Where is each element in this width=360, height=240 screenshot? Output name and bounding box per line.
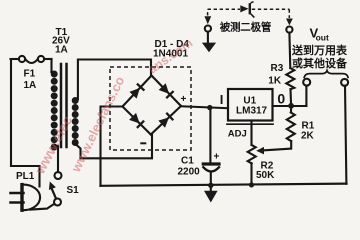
output wire U1 to node — [273, 105, 307, 107]
bridge diode D3 lower-left — [129, 113, 145, 129]
capacitor C1 lead — [209, 108, 211, 163]
R3 bottom lead — [289, 89, 292, 106]
R2 wiper arrow — [256, 147, 264, 155]
wire secondary top to bridge — [78, 60, 151, 100]
svg-text:被测二极管: 被测二极管 — [220, 20, 272, 33]
ground symbol test terminal — [202, 43, 216, 53]
arrow to left test terminal — [204, 16, 211, 24]
dashed test diode right vertical — [288, 9, 290, 18]
svg-text:LM317: LM317 — [236, 106, 268, 117]
switch lever arrowhead — [49, 182, 56, 191]
brace above terminals — [304, 71, 348, 78]
bridge dashed box — [110, 67, 191, 150]
svg-text:PL1: PL1 — [16, 171, 35, 182]
test diode symbol — [240, 5, 248, 12]
wire switch to primary bottom — [57, 146, 59, 172]
bridge diode D2 upper-right — [159, 83, 175, 99]
transformer T1 secondary winding — [72, 97, 79, 146]
bridge diode D4 lower-right — [158, 112, 174, 128]
wire left terminal to ground — [207, 32, 209, 43]
Vout right terminal — [341, 79, 348, 86]
test diode terminal circles — [205, 26, 211, 32]
plug prong lower — [11, 201, 24, 204]
plug prong upper — [11, 192, 24, 195]
watermark red — [31, 36, 195, 177]
wire mains left vertical — [10, 59, 12, 166]
node dot C1/ground rail — [208, 183, 213, 188]
wire secondary bottom — [76, 145, 81, 159]
wire bridge left corner to DC minus vertical — [101, 107, 123, 186]
svg-text:R3: R3 — [271, 63, 284, 74]
svg-text:+: + — [214, 152, 220, 163]
wire mains top to fuse — [11, 58, 19, 60]
svg-text:2K: 2K — [301, 130, 315, 141]
dashed test diode left vertical — [207, 9, 209, 15]
node dot R2/ground rail — [249, 182, 254, 187]
wire plug to switch — [30, 204, 54, 210]
R3 lead from terminal — [288, 33, 291, 68]
transformer T1 primary winding — [51, 71, 58, 151]
svg-text:1A: 1A — [24, 80, 37, 91]
node dot C1/input rail — [207, 105, 212, 110]
svg-text:2200: 2200 — [178, 167, 201, 178]
dashed test diode top wire — [208, 8, 240, 10]
svg-text:F1: F1 — [24, 69, 36, 80]
wire fuse to primary top — [50, 59, 52, 72]
R1 top lead — [290, 106, 292, 113]
switch S1 — [55, 172, 62, 179]
svg-text:或其他设备: 或其他设备 — [292, 56, 348, 70]
transformer core — [60, 64, 63, 147]
resistor R3 zigzag — [286, 68, 294, 89]
minus sign bridge bottom — [140, 142, 146, 144]
bridge diode D1 upper-left — [129, 83, 145, 99]
dashed wires — [110, 9, 289, 150]
U1 LM317 box — [228, 89, 273, 121]
svg-text:1A: 1A — [55, 45, 68, 56]
svg-text:0: 0 — [277, 91, 285, 107]
bottom ground rail — [101, 184, 347, 186]
capacitor C1 — [203, 162, 219, 165]
svg-text:C1: C1 — [181, 156, 194, 167]
resistor R1 zigzag — [287, 113, 295, 142]
wire AC lower to bridge bottom — [81, 135, 153, 158]
fuse F1 — [19, 56, 25, 62]
arrow to right test terminal — [286, 19, 293, 26]
bridge diamond edges — [123, 76, 152, 107]
Vout left terminal wire — [305, 86, 307, 107]
ground symbol below C1 — [204, 191, 218, 203]
ADJ lead — [250, 121, 252, 146]
svg-text:+: + — [181, 94, 187, 105]
svg-text:out: out — [316, 33, 329, 43]
wire to plug top — [11, 166, 40, 187]
svg-text:S1: S1 — [67, 185, 80, 196]
svg-text:送到万用表: 送到万用表 — [291, 43, 348, 57]
svg-text:I: I — [220, 92, 224, 107]
svg-text:1K: 1K — [268, 75, 282, 86]
svg-text:50K: 50K — [256, 170, 275, 181]
R2 bottom lead — [250, 163, 252, 185]
input rail bridge to U1 — [181, 106, 228, 108]
plug PL1 body — [20, 185, 23, 211]
R2 zigzag — [248, 145, 256, 163]
node dot output — [288, 103, 294, 109]
svg-text:ADJ: ADJ — [228, 129, 247, 140]
R1 bottom lead to wiper line — [264, 141, 292, 150]
ground stub below C1 — [210, 185, 212, 191]
